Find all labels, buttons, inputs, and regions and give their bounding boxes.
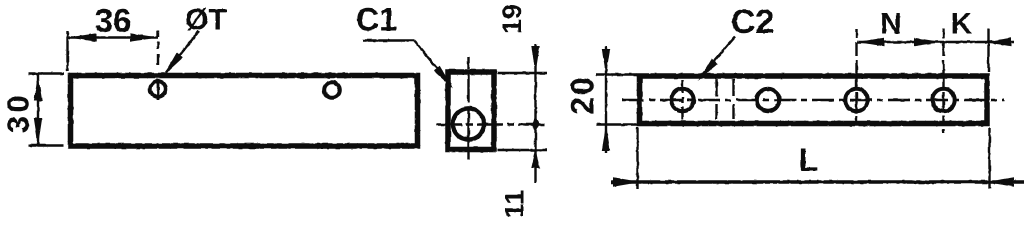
left side view outline <box>71 76 418 147</box>
dim L extension left <box>636 128 638 190</box>
dim 19 down arrow <box>531 46 539 73</box>
top view hole 4 <box>932 89 954 111</box>
dim 36 right arrow <box>130 33 158 41</box>
dim N left arrow <box>857 38 884 46</box>
dim K outside arrow <box>985 38 1012 46</box>
dim 19 extension top <box>498 72 548 74</box>
svg-text:36: 36 <box>95 2 132 39</box>
break line right <box>732 79 734 119</box>
top view hole 2 <box>757 89 779 111</box>
svg-text:30: 30 <box>1 92 36 133</box>
dim L extension right <box>988 128 990 190</box>
dim 30 extension top <box>28 72 64 74</box>
svg-text:20: 20 <box>565 75 601 115</box>
hole T centerline <box>157 30 159 37</box>
OT leader <box>166 31 199 73</box>
hole B left view <box>324 82 340 98</box>
dim 30 line <box>37 74 39 146</box>
svg-text:ØT: ØT <box>185 3 227 36</box>
dim L left arrow <box>613 177 641 187</box>
svg-text:K: K <box>951 7 973 40</box>
svg-text:L: L <box>799 142 819 178</box>
dim 20 line <box>605 46 607 153</box>
hole T left view <box>150 81 166 97</box>
dim 20 extension bottom <box>596 123 637 125</box>
svg-text:C2: C2 <box>731 3 774 41</box>
OT leader arrowhead <box>164 53 183 76</box>
C2 leader <box>701 37 735 76</box>
hole 3 vertical centerline <box>855 29 857 127</box>
C1 leader arrowhead <box>434 66 454 89</box>
end view outline <box>448 72 494 150</box>
hole 1 vertical centerline <box>681 80 683 120</box>
end view vertical centerline <box>467 57 469 169</box>
top view horizontal centerline <box>622 99 1004 101</box>
break line left <box>715 79 717 119</box>
dim 36 left arrow <box>69 33 97 41</box>
C1 leader diagonal <box>414 41 450 85</box>
svg-text:11: 11 <box>500 190 530 219</box>
dim L right arrow <box>986 177 1014 187</box>
dim 30 down arrow <box>34 118 42 145</box>
end view horizontal centerline <box>436 123 547 125</box>
dim 36 line <box>69 36 159 38</box>
svg-text:C1: C1 <box>356 2 397 38</box>
dim 11 up arrow <box>531 150 539 168</box>
svg-text:19: 19 <box>497 4 527 34</box>
hole 4 vertical centerline <box>942 29 944 133</box>
C1 leader underline <box>363 39 414 41</box>
dim 36 extension line <box>66 31 68 71</box>
dim 20 top arrow <box>602 49 610 75</box>
dim 20 bottom arrow <box>602 125 610 152</box>
dim 19-11 vertical line <box>534 44 536 183</box>
svg-text:N: N <box>880 7 902 40</box>
dim 30 extension bottom <box>28 144 64 146</box>
dim 30 up arrow <box>34 74 42 101</box>
dim 20 extension top <box>596 73 637 75</box>
C2 leader arrowhead <box>698 59 718 82</box>
dim K extension line <box>987 29 989 72</box>
top view hole 3 <box>845 89 867 111</box>
dim 11 extension bottom <box>498 149 548 151</box>
dim N-K line <box>857 41 1014 43</box>
dim 19-11 diamond <box>532 117 540 133</box>
dim N right arrow <box>914 38 942 46</box>
end view hole C1 <box>453 108 484 139</box>
top view hole 1 <box>671 89 693 111</box>
dim L line <box>611 180 1024 184</box>
top view outline <box>640 76 988 124</box>
